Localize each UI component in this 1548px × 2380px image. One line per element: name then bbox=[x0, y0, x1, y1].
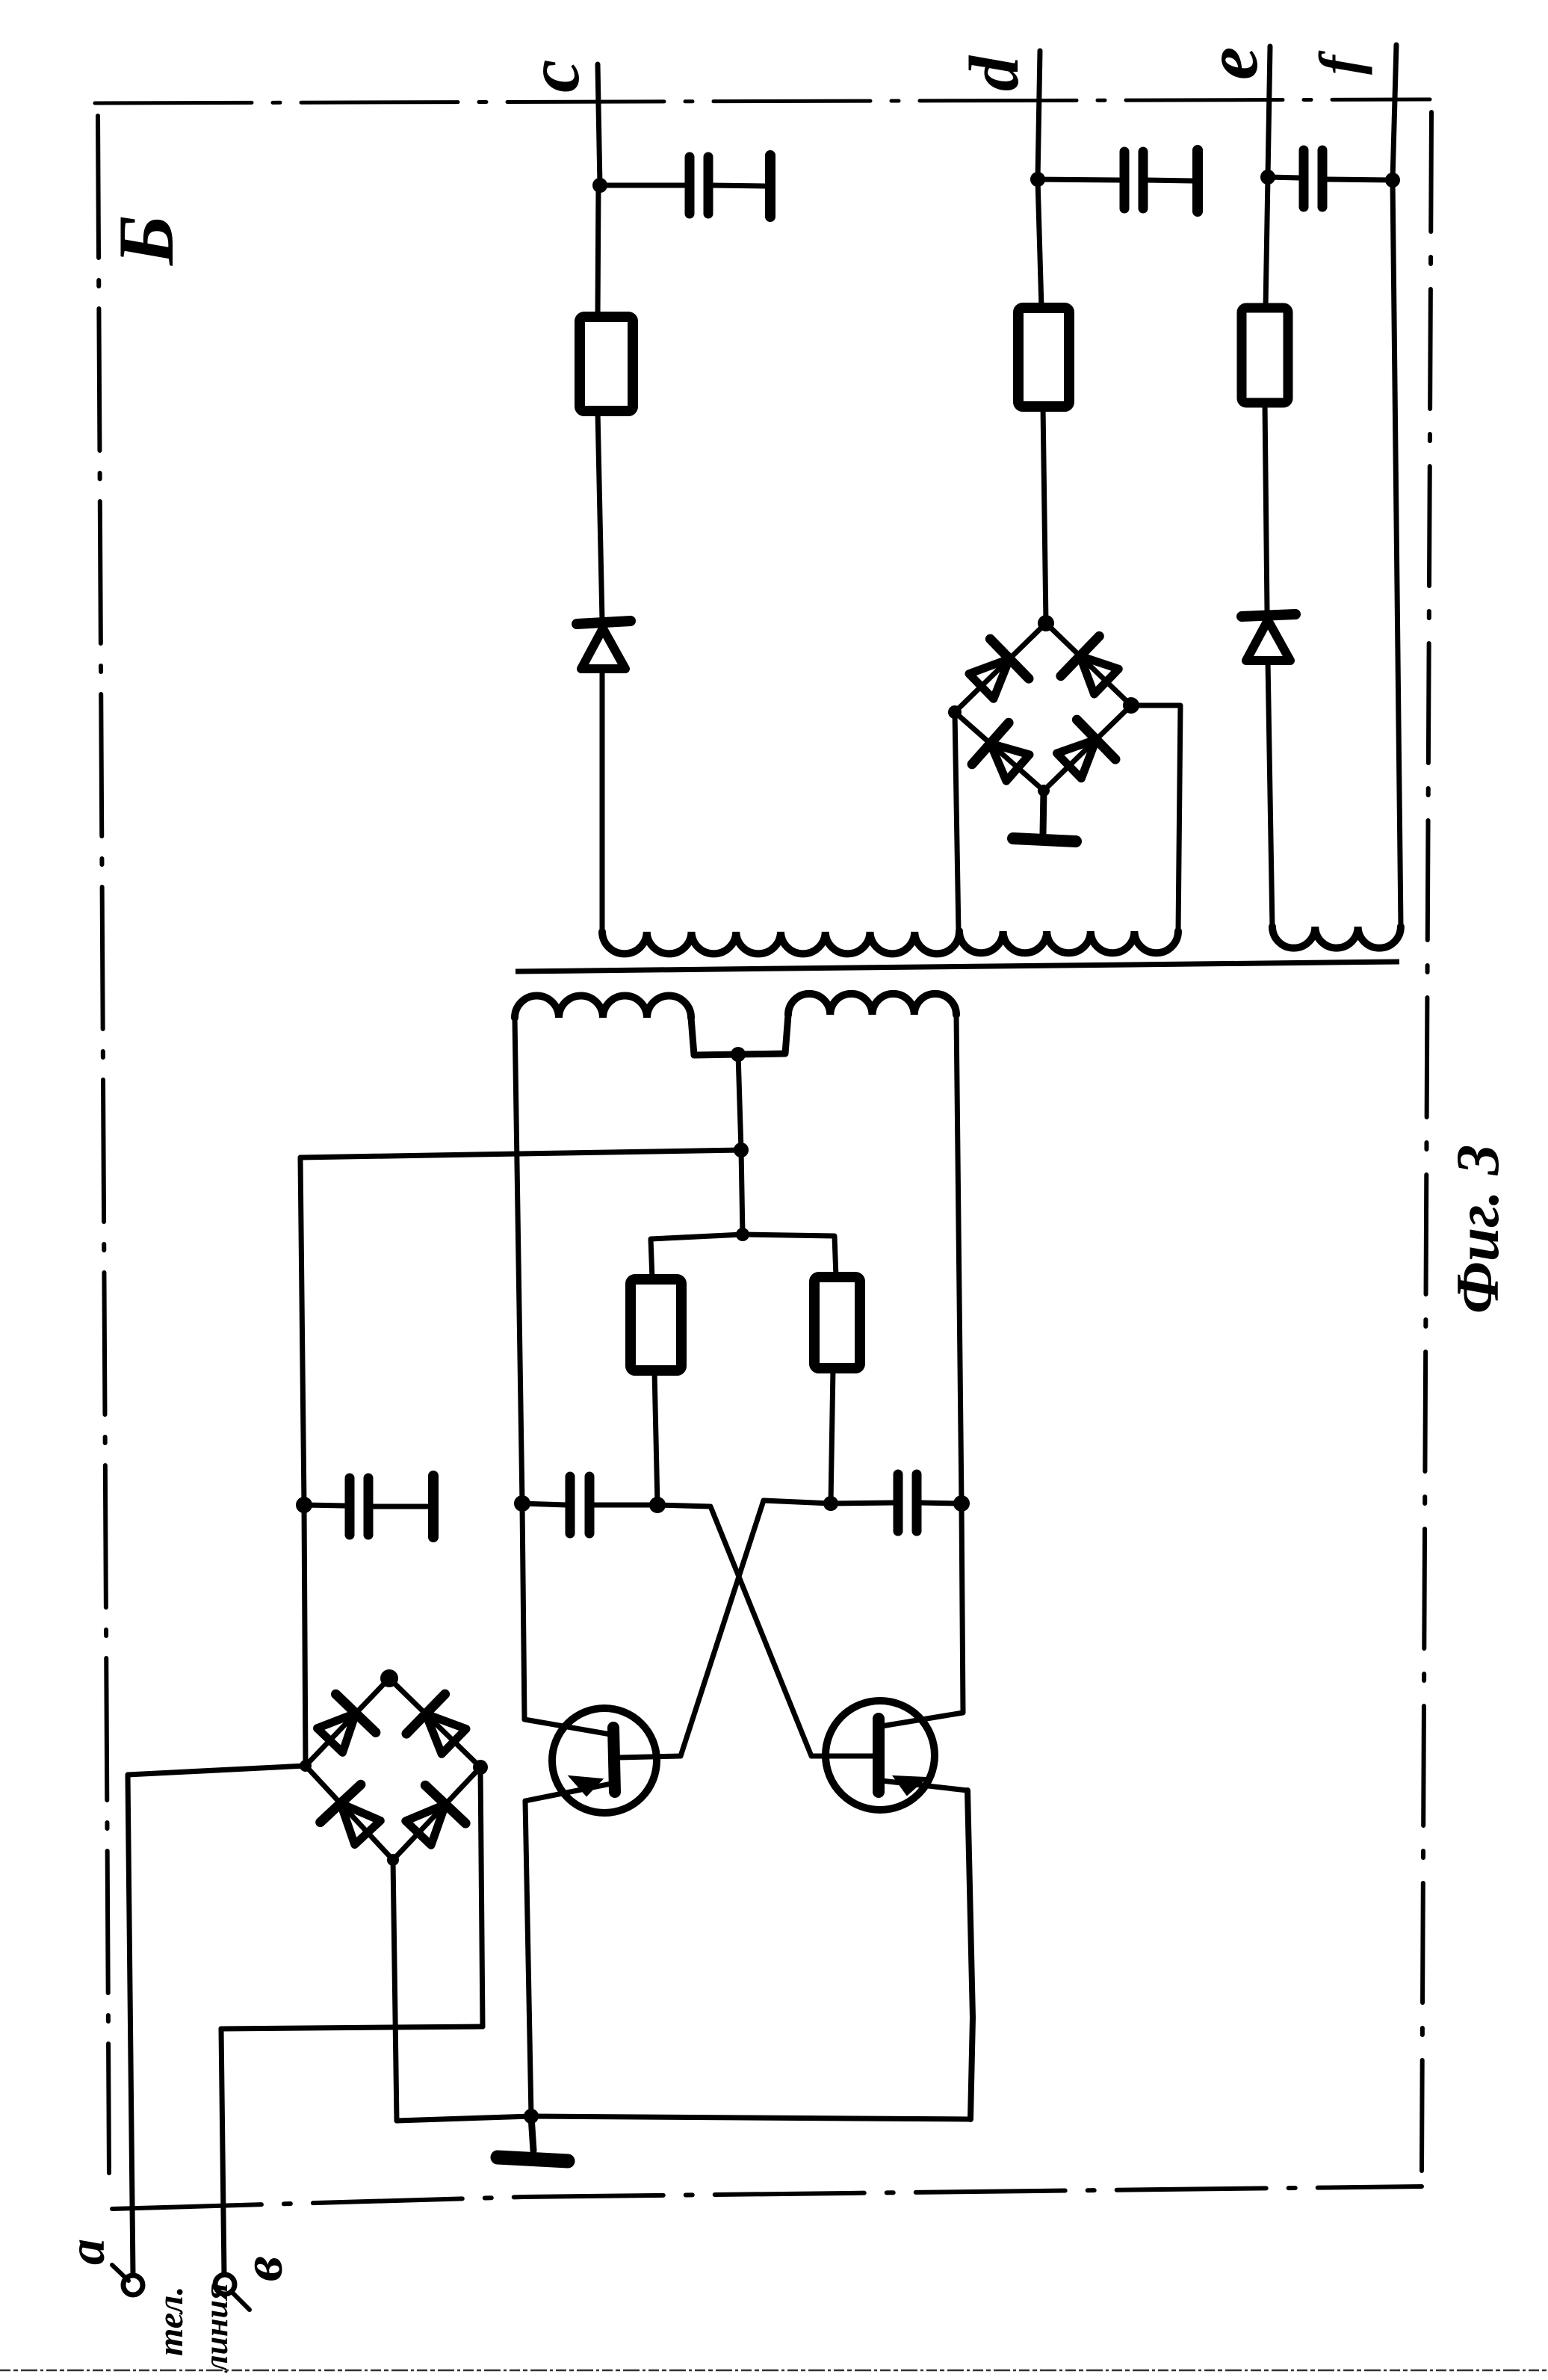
node feedback junction bbox=[734, 1143, 749, 1157]
transistor T2 base lead bbox=[811, 1754, 874, 1759]
capacitor C-c outer electrode bar bbox=[765, 155, 775, 217]
capacitor C-d outer electrode bar bbox=[1192, 150, 1203, 211]
capacitor C2 plates bbox=[570, 1477, 589, 1533]
wire centre chain down bbox=[741, 1150, 743, 1234]
wire node to capacitor C3 bbox=[831, 1503, 894, 1503]
bridge2 side bottom-right wire bbox=[1044, 705, 1131, 791]
figure caption Фиг. 3 bbox=[1443, 1144, 1511, 1314]
bridge1 side top-right wire bbox=[389, 1678, 480, 1767]
wire inside capacitor C-d bbox=[1146, 180, 1192, 181]
wire f lead-in bbox=[1393, 45, 1396, 180]
wire resistor R-d to bridge bbox=[1043, 407, 1046, 623]
transistor T2 base bar bbox=[873, 1719, 885, 1792]
bridge2 ground bar bbox=[1013, 838, 1076, 841]
svg-text:Б: Б bbox=[102, 215, 190, 266]
label тел. bbox=[151, 2287, 191, 2356]
bridge2 node left bbox=[948, 705, 962, 719]
svg-text:линия: линия bbox=[198, 2283, 235, 2373]
node d junction bbox=[1030, 172, 1045, 187]
primary centre-tap jog bbox=[691, 1015, 788, 1055]
wire c node to resistor bbox=[598, 185, 598, 317]
bridge1 node bottom bbox=[387, 1854, 399, 1866]
wire centre-tap down bbox=[738, 1054, 741, 1150]
bridge1 side top-left wire bbox=[306, 1678, 389, 1766]
wire node to capacitor C2 bbox=[522, 1503, 566, 1505]
wire node to capacitor C1 bbox=[304, 1505, 345, 1506]
diode D-e triangle bbox=[1246, 620, 1290, 661]
terminal label в bbox=[232, 2256, 294, 2281]
wire node-d to capacitor bbox=[1038, 179, 1119, 180]
svg-text:тел.: тел. bbox=[151, 2287, 191, 2356]
wire branch to R1 bbox=[651, 1234, 743, 1279]
wire terminal b vertical bbox=[221, 2029, 224, 2275]
bridge2 node right bbox=[1123, 697, 1139, 714]
wire primary A left end down bbox=[515, 1018, 522, 1503]
transistor T2 emitter arrow bbox=[894, 1776, 926, 1795]
wire left rail vertical bbox=[300, 1157, 304, 1505]
cross wire right-to-left (to T1 base) bbox=[681, 1500, 831, 1756]
bridge1 diode bottom-left bbox=[321, 1784, 381, 1844]
label линия bbox=[198, 2283, 235, 2373]
wire e node to resistor bbox=[1266, 177, 1268, 308]
transformer primary winding A bbox=[515, 996, 691, 1019]
transistor T1 emitter arrow bbox=[569, 1776, 602, 1796]
node cap1 left bbox=[296, 1497, 312, 1513]
diode D-c triangle bbox=[581, 628, 625, 669]
bridge1 diode top-left bbox=[318, 1694, 376, 1752]
frame border right bbox=[1422, 112, 1431, 2171]
capacitor C1 plates bbox=[350, 1478, 368, 1535]
wire node-c to capacitor bbox=[600, 183, 687, 188]
terminal a circle bbox=[123, 2275, 143, 2295]
frame border bottom bbox=[112, 2186, 1422, 2209]
transformer primary winding B bbox=[788, 994, 956, 1015]
bridge2 side top-right wire bbox=[1046, 623, 1131, 705]
wire d lead-in bbox=[1038, 51, 1040, 179]
bridge1 diode top-right bbox=[406, 1694, 466, 1754]
transistor T1 emitter bbox=[525, 1783, 615, 1801]
svg-text:Фиг. 3: Фиг. 3 bbox=[1443, 1144, 1511, 1314]
capacitor C-c plates bbox=[690, 157, 708, 214]
node c junction bbox=[592, 178, 607, 193]
transistor T2 body bbox=[826, 1701, 935, 1810]
svg-text:e: e bbox=[1190, 47, 1273, 80]
transistor T1 body bbox=[552, 1708, 657, 1813]
node cap3 right bbox=[953, 1495, 970, 1512]
capacitor C3 plates bbox=[898, 1474, 917, 1531]
bridge1 node left bbox=[300, 1760, 312, 1772]
capacitor C-ef plates bbox=[1304, 150, 1322, 207]
cross wire left-to-right (to T2 base) bbox=[657, 1505, 811, 1756]
ground symbol stem bbox=[531, 2116, 533, 2151]
wire T2 emitter to ground rail bbox=[967, 1790, 973, 2119]
wire primary B right end down bbox=[956, 1015, 962, 1503]
svg-text:d: d bbox=[956, 55, 1033, 91]
capacitor C-d plates bbox=[1124, 152, 1143, 208]
bridge2 node bottom bbox=[1038, 785, 1050, 797]
wire R2 bottom bbox=[831, 1368, 833, 1503]
resistor R1 bbox=[631, 1279, 681, 1370]
wire resistor R-e to diode D-e bbox=[1265, 403, 1267, 611]
primary centre-tap node bbox=[731, 1047, 746, 1062]
bridge1 diode bottom-right bbox=[406, 1785, 465, 1845]
transformer core bbox=[516, 962, 1399, 971]
node label c bbox=[512, 60, 595, 93]
bridge2 node top bbox=[1038, 615, 1054, 631]
wire diode D-e to winding S3 bbox=[1268, 661, 1272, 928]
diode D-c cathode bar bbox=[577, 621, 631, 624]
wire d node to resistor bbox=[1038, 179, 1041, 308]
transistor T1 base bar bbox=[613, 1728, 615, 1792]
wire feedback to left rail bbox=[300, 1150, 741, 1157]
node e junction bbox=[1260, 170, 1275, 185]
ground rail wire bbox=[397, 2116, 970, 2121]
terminal b tick bbox=[232, 2293, 250, 2310]
wire bridge1 right vertex down bbox=[480, 1767, 483, 2027]
wire c lead-in bbox=[598, 64, 600, 185]
wire e lead-in bbox=[1268, 46, 1270, 177]
terminal b circle bbox=[215, 2275, 235, 2294]
node cap2 left bbox=[514, 1495, 530, 1512]
transistor T2 collector bbox=[882, 1505, 963, 1726]
frame border left bbox=[98, 116, 109, 2173]
wire to terminal b horizontal bbox=[221, 2027, 483, 2029]
bridge1 node top bbox=[380, 1669, 398, 1687]
transistor T2 emitter bbox=[882, 1781, 967, 1790]
transformer secondary winding S3 bbox=[1272, 927, 1401, 948]
wire bridge2 right vertex to winding S2 end bbox=[1131, 705, 1180, 933]
transistor T1 base lead bbox=[619, 1756, 681, 1758]
section label Б bbox=[102, 215, 190, 266]
node cap3 left bbox=[823, 1496, 838, 1511]
bridge2 side bottom-left wire bbox=[955, 712, 1044, 791]
terminal a tick bbox=[112, 2265, 129, 2281]
svg-text:a: a bbox=[58, 2239, 116, 2265]
wire inside capacitor C-c bbox=[711, 185, 765, 186]
wire capacitor C3 to corner node bbox=[920, 1503, 962, 1503]
wire left rail to bridge1 left vertex bbox=[304, 1505, 306, 1766]
resistor R-e bbox=[1242, 308, 1288, 403]
bridge2 diode top-right bbox=[1061, 636, 1118, 694]
svg-text:c: c bbox=[512, 60, 595, 93]
bridge2 diode bottom-left bbox=[972, 723, 1030, 781]
transistor T1 collector bbox=[522, 1505, 615, 1735]
wire bridge1 left vertex to terminal a bbox=[128, 1766, 306, 2275]
node label d bbox=[956, 55, 1033, 91]
capacitor C1 outer electrode bar bbox=[428, 1476, 439, 1537]
wire branch to R2 bbox=[743, 1234, 836, 1277]
node label e bbox=[1190, 47, 1273, 80]
scan edge line bbox=[0, 2370, 1548, 2372]
bridge1 side bottom-left wire bbox=[306, 1766, 393, 1860]
node cap2 right bbox=[649, 1497, 666, 1513]
wire bridge1 bottom vertex down bbox=[393, 1860, 397, 2121]
bridge2 ground stem bbox=[1043, 791, 1044, 834]
diode D-e cathode bar bbox=[1242, 614, 1295, 616]
wire diode D-c to winding S1 bbox=[600, 669, 605, 933]
node f junction bbox=[1385, 173, 1400, 188]
wire T1 emitter to ground rail bbox=[525, 1801, 531, 2116]
wire R1 bottom bbox=[654, 1370, 657, 1505]
wire capacitor C2 to node bbox=[592, 1503, 657, 1508]
bridge2 diode top-left bbox=[969, 639, 1029, 699]
resistor R-c bbox=[580, 317, 633, 411]
ground symbol bar bbox=[498, 2157, 568, 2161]
resistor R2 bbox=[814, 1277, 860, 1368]
wire resistor to diode bbox=[598, 411, 602, 620]
node label f bbox=[1307, 50, 1372, 75]
wire f to winding S3 end bbox=[1393, 180, 1401, 927]
wire inside capacitor C1 bbox=[371, 1504, 427, 1509]
bridge2 diode bottom-right bbox=[1057, 720, 1116, 779]
terminal label a bbox=[58, 2239, 116, 2265]
resistor R-d bbox=[1018, 308, 1069, 407]
wire bridge2 left vertex to winding junction bbox=[955, 712, 959, 933]
bridge1 side bottom-right wire bbox=[393, 1767, 480, 1860]
svg-text:в: в bbox=[232, 2256, 294, 2281]
transformer secondary winding S2 bbox=[959, 931, 1178, 953]
transformer secondary winding S1 bbox=[602, 932, 959, 953]
wire capacitor C-ef to node f bbox=[1325, 179, 1393, 180]
ground rail node bbox=[524, 2109, 539, 2124]
bridge1 node right bbox=[473, 1760, 488, 1775]
frame border top bbox=[95, 99, 1430, 103]
node resistor-pair junction bbox=[736, 1228, 749, 1241]
bridge2 side top-left wire bbox=[955, 623, 1046, 712]
wire node-e to capacitor bbox=[1268, 177, 1300, 178]
